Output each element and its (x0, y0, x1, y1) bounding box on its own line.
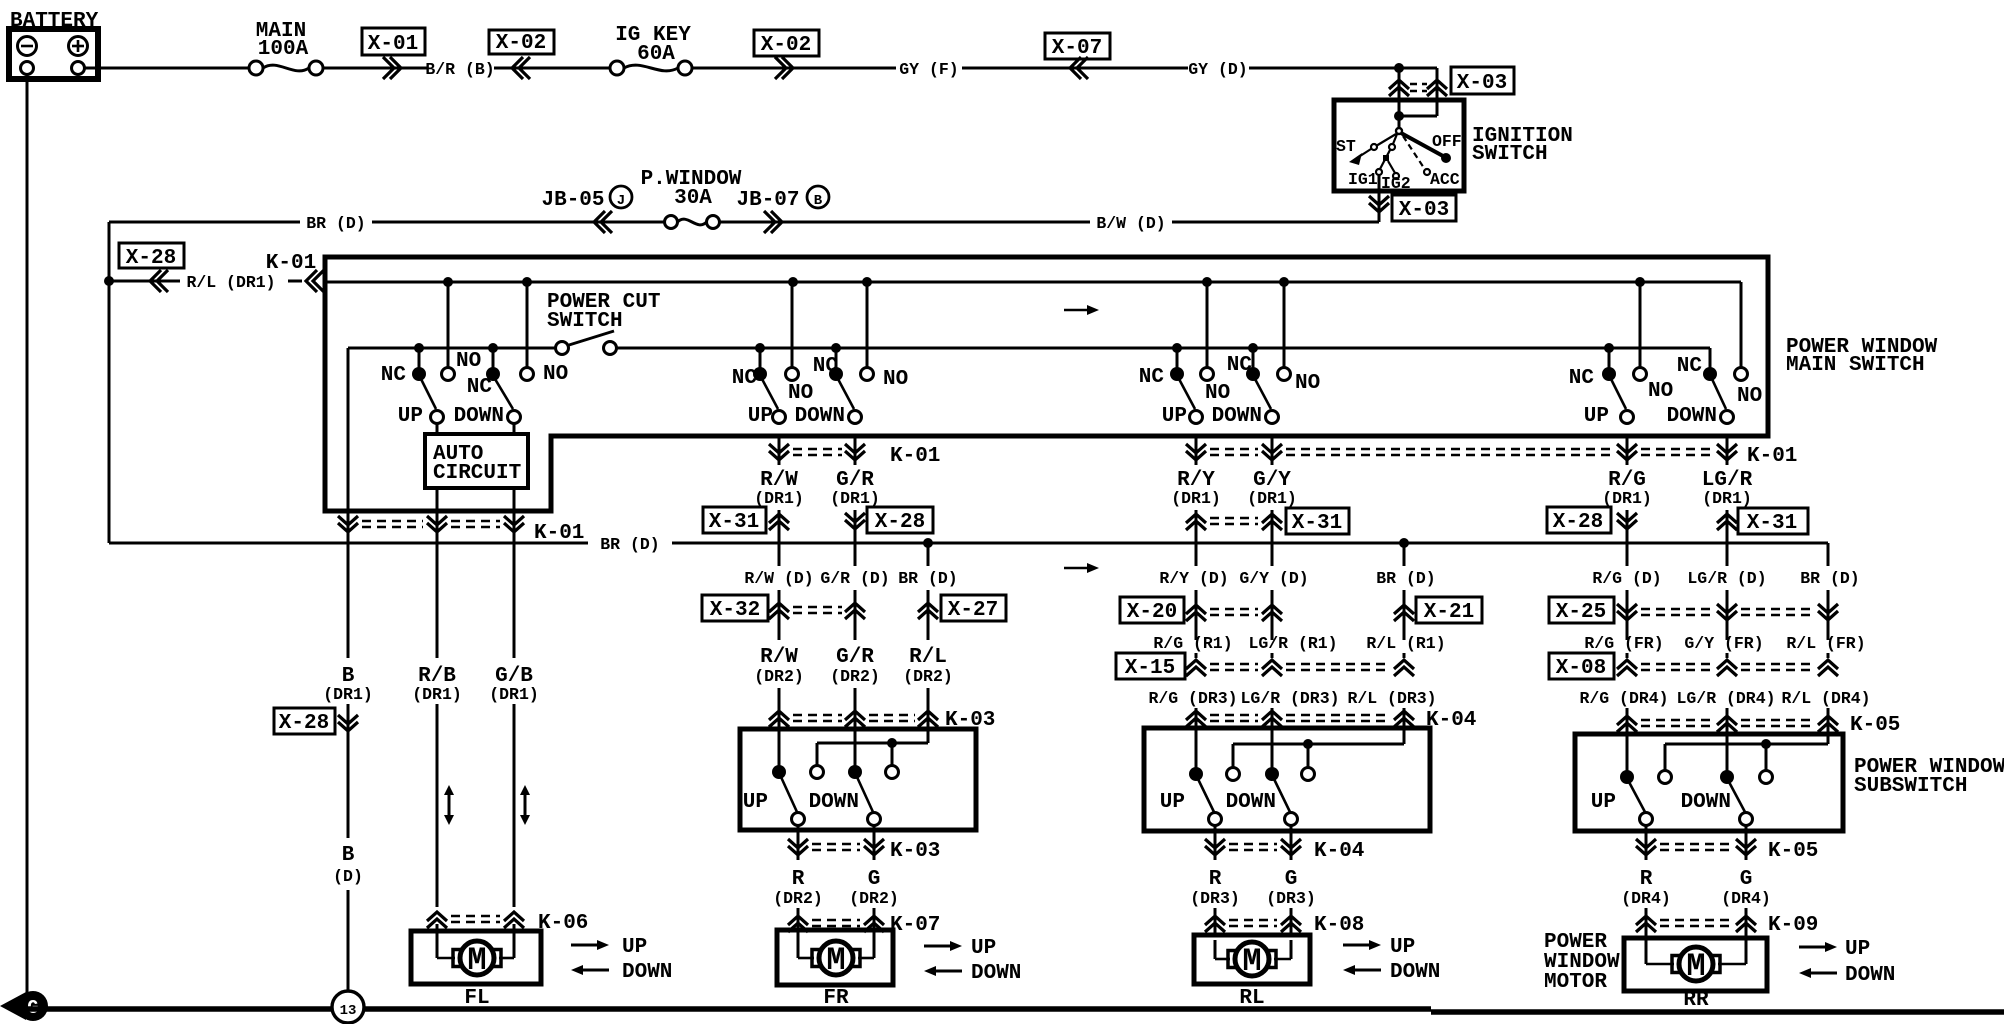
label FL UP (398, 405, 423, 428)
connector X-21 (1394, 597, 1482, 624)
svg-text:NC: NC (1139, 366, 1165, 389)
svg-text:K-06: K-06 (538, 912, 588, 935)
switch RL DOWN NO contact (1278, 282, 1291, 381)
svg-text:R/L (DR1): R/L (DR1) (186, 273, 275, 292)
wire label R/Y (D) (1159, 569, 1228, 640)
svg-text:NO: NO (883, 368, 908, 391)
connector K-01 FL (338, 511, 584, 545)
wire BR (D) feed corner (109, 214, 664, 233)
label FL NC2 (467, 376, 493, 399)
svg-text:G/Y (D): G/Y (D) (1239, 569, 1308, 588)
svg-text:IG1: IG1 (1348, 170, 1378, 189)
node R/L tap (104, 276, 114, 286)
wire G/B run (513, 704, 516, 907)
connector X-02 right (754, 30, 819, 79)
svg-text:NC: NC (467, 376, 493, 399)
wire label LG/R (R1) (1248, 634, 1337, 658)
wire label BR (D) drop RL (1376, 543, 1435, 640)
svg-text:CIRCUIT: CIRCUIT (433, 462, 521, 485)
switch RL UP NC contact (1170, 348, 1184, 381)
svg-text:B/R (B): B/R (B) (425, 60, 494, 79)
node ignition feed junction (1394, 63, 1437, 73)
svg-text:UP: UP (1591, 791, 1616, 814)
svg-text:NO: NO (543, 363, 568, 386)
switch RR DOWN NC contact (1703, 367, 1717, 381)
svg-text:(DR2): (DR2) (754, 667, 804, 686)
wire label R/L (DR2) (903, 646, 953, 729)
svg-text:DOWN: DOWN (1845, 964, 1895, 987)
svg-text:DOWN: DOWN (1681, 791, 1731, 814)
svg-text:NC: NC (813, 355, 839, 378)
svg-text:R/W (D): R/W (D) (744, 569, 813, 588)
switch FR DOWN NO contact (861, 282, 874, 381)
svg-text:R/L (R1): R/L (R1) (1366, 634, 1445, 653)
switch FR UP NO contact (786, 282, 799, 381)
wire label G/Y (D) (1239, 569, 1308, 640)
wire label B (DR1) (323, 533, 373, 704)
legend RL up down (1343, 936, 1440, 984)
wire fuse IG KEY to X-02 (692, 67, 802, 70)
label FR UP (748, 405, 773, 428)
svg-text:BR (D): BR (D) (1376, 569, 1435, 588)
connector X-25 (1549, 597, 1838, 624)
svg-text:X-03: X-03 (1399, 199, 1449, 222)
ground G (0, 991, 48, 1021)
svg-text:G/R (D): G/R (D) (820, 569, 889, 588)
wire label R/L (DR1) (186, 273, 302, 292)
wire label R/G (DR3) (1148, 689, 1237, 729)
label RR UP (1584, 405, 1609, 428)
connector K-09 (1636, 908, 1818, 941)
svg-text:ACC: ACC (1430, 170, 1460, 189)
svg-text:(DR3): (DR3) (1266, 889, 1316, 908)
svg-text:LG/R (DR3): LG/R (DR3) (1240, 689, 1339, 708)
svg-text:(DR1): (DR1) (1171, 489, 1221, 508)
wire power cut bus left (348, 347, 556, 350)
node R/L bus tap x=448 (443, 277, 453, 287)
auto circuit box (425, 423, 528, 511)
connector X-31 RL (1186, 508, 1349, 566)
svg-text:X-01: X-01 (368, 33, 418, 56)
node R/L bus tap x=527 (522, 277, 532, 287)
label FR NO2 (883, 368, 908, 391)
wire label G/R (DR2) (830, 646, 880, 729)
svg-text:UP: UP (743, 791, 768, 814)
wire power cut bus end drop (1709, 348, 1712, 368)
svg-text:DOWN: DOWN (795, 405, 845, 428)
svg-text:K-05: K-05 (1768, 840, 1818, 863)
svg-text:R/W: R/W (760, 646, 798, 669)
switch FR UP NC contact (753, 348, 767, 381)
wire battery positive to fuse MAIN (85, 67, 249, 70)
svg-text:BR (D): BR (D) (600, 535, 659, 554)
svg-text:GY (D): GY (D) (1188, 60, 1247, 79)
node BR tap FR (923, 538, 933, 548)
svg-text:NC: NC (1227, 354, 1253, 377)
wire label GY (D) (1087, 60, 1399, 79)
fuse P.WINDOW 30A (641, 168, 742, 229)
svg-text:X-31: X-31 (1292, 512, 1342, 535)
svg-text:(DR1): (DR1) (830, 489, 880, 508)
label FL NO1 (456, 350, 481, 373)
wire label R (DR2) (773, 868, 823, 908)
wire label G/Y (DR1) (1247, 469, 1297, 508)
switch RL UP NO contact (1201, 282, 1214, 381)
svg-text:(DR1): (DR1) (1702, 489, 1752, 508)
svg-text:X-08: X-08 (1556, 657, 1606, 680)
svg-text:(DR1): (DR1) (1247, 489, 1297, 508)
svg-text:R/G (D): R/G (D) (1592, 569, 1661, 588)
wire label LG/R (DR4) (1676, 689, 1775, 734)
wire B (DR1) inside box (347, 348, 350, 511)
ignition switch U1 (1334, 100, 1573, 193)
svg-text:(DR2): (DR2) (830, 667, 880, 686)
svg-text:BR (D): BR (D) (1800, 569, 1859, 588)
svg-text:R/Y (D): R/Y (D) (1159, 569, 1228, 588)
arrow right upper (1064, 305, 1099, 315)
svg-text:G: G (868, 868, 881, 891)
svg-text:MOTOR: MOTOR (1544, 971, 1607, 994)
node R/L bus tap x=1207 (1202, 277, 1212, 287)
svg-text:R/L (DR4): R/L (DR4) (1781, 689, 1870, 708)
svg-text:IG2: IG2 (1381, 174, 1411, 193)
svg-text:(D): (D) (333, 867, 363, 886)
arrow R/B direction (444, 785, 454, 825)
wire label R/W (DR2) (754, 646, 804, 729)
connector X-28 FL (274, 704, 358, 740)
svg-text:LG/R (DR4): LG/R (DR4) (1676, 689, 1775, 708)
node R/L bus tap x=867 (862, 277, 872, 287)
power window subswitch RR (1575, 726, 2004, 831)
svg-text:R/G (DR3): R/G (DR3) (1148, 689, 1237, 708)
svg-text:R: R (792, 868, 805, 891)
svg-text:X-31: X-31 (1747, 512, 1797, 535)
svg-text:K-01: K-01 (890, 445, 940, 468)
label FL DOWN (454, 405, 504, 428)
switch FL UP NC contact (412, 348, 426, 381)
switch RL DOWN blade (1255, 379, 1279, 424)
svg-text:SUBSWITCH: SUBSWITCH (1854, 775, 1967, 798)
power window subswitch FR (740, 721, 976, 830)
fuse IG KEY 60A (610, 24, 692, 75)
svg-text:BR (D): BR (D) (898, 569, 957, 588)
svg-text:R: R (1640, 868, 1653, 891)
connector X-02 left (489, 30, 554, 79)
label FR (823, 987, 849, 1010)
connector JB-05 (J) (541, 186, 632, 233)
connector X-31 RR (1717, 508, 1808, 535)
svg-text:R/L (DR3): R/L (DR3) (1347, 689, 1436, 708)
wire label B (D) (333, 740, 363, 991)
label RL NO2 (1295, 372, 1320, 395)
svg-text:K-01: K-01 (1747, 445, 1797, 468)
svg-text:UP: UP (971, 937, 996, 960)
connector X-28 left (109, 243, 184, 292)
wire label G/Y (FR) (1684, 634, 1763, 658)
connector K-01 left (266, 252, 324, 292)
connector X-28 FR (845, 507, 933, 566)
svg-text:NO: NO (1648, 380, 1673, 403)
svg-text:DOWN: DOWN (971, 962, 1021, 985)
switch RR UP NC contact (1602, 348, 1616, 381)
svg-text:60A: 60A (637, 43, 675, 66)
svg-text:(DR4): (DR4) (1721, 889, 1771, 908)
switch FR DOWN NC contact (829, 348, 843, 381)
wire label G/R (DR1) (830, 469, 880, 508)
svg-text:X-15: X-15 (1125, 657, 1175, 680)
wire label R/G (FR) (1584, 634, 1663, 658)
svg-text:(DR1): (DR1) (412, 685, 462, 704)
fuse MAIN 100A (249, 20, 323, 75)
node power cut tap x=760 (755, 343, 765, 353)
svg-text:X-28: X-28 (875, 511, 925, 534)
svg-text:NC: NC (381, 364, 407, 387)
svg-text:K-04: K-04 (1314, 840, 1364, 863)
wire label LG/R (DR1) (1702, 469, 1753, 508)
connector K-01 RL RR (1186, 436, 1797, 468)
svg-text:30A: 30A (674, 187, 712, 210)
svg-text:NO: NO (788, 382, 813, 405)
svg-text:OFF: OFF (1432, 132, 1462, 151)
svg-text:UP: UP (1390, 936, 1415, 959)
connector X-07 (1045, 33, 1110, 79)
svg-text:R/L: R/L (909, 646, 947, 669)
switch RR DOWN blade (1712, 379, 1734, 424)
svg-text:X-07: X-07 (1052, 37, 1102, 60)
svg-text:DOWN: DOWN (454, 405, 504, 428)
wire R/B run (436, 704, 439, 907)
wire label R/W (D) (744, 569, 813, 640)
wire label LG/R (D) (1687, 510, 1766, 640)
wire label R/W (DR1) (754, 469, 804, 508)
svg-text:DOWN: DOWN (1226, 791, 1276, 814)
svg-text:X-02: X-02 (496, 32, 546, 55)
switch RR UP NO contact (1634, 282, 1647, 381)
arrow right lower (1064, 563, 1099, 573)
svg-text:X-28: X-28 (279, 712, 329, 735)
connector K-03 upper (769, 709, 995, 732)
power window motor RR (1544, 931, 1767, 994)
connector X-03 top (1389, 67, 1514, 116)
connector X-01 (362, 28, 425, 79)
wire label G (DR4) (1721, 868, 1771, 908)
label RR (1683, 989, 1709, 1012)
connector K-05 lower (1636, 826, 1818, 863)
svg-text:UP: UP (1584, 405, 1609, 428)
switch FR UP blade (762, 379, 786, 424)
label FL NC1 (381, 364, 407, 387)
svg-text:X-28: X-28 (1553, 511, 1603, 534)
svg-text:M: M (467, 942, 486, 979)
wire label R/G (D) (1592, 510, 1661, 640)
battery (9, 10, 99, 79)
wire label R/L (DR4) (1781, 689, 1870, 734)
wire BR (D) left vertical (108, 222, 111, 543)
label RR NC1 (1569, 367, 1595, 390)
node power cut tap x=419 (414, 343, 424, 353)
label RL UP (1162, 405, 1187, 428)
connector K-03 lower (788, 826, 940, 863)
svg-text:G: G (1740, 868, 1753, 891)
wire label G/B (DR1) (489, 533, 539, 704)
svg-text:R: R (1209, 868, 1222, 891)
wire R/L bus (325, 281, 1741, 284)
svg-text:G: G (1285, 868, 1298, 891)
svg-text:LG/R (D): LG/R (D) (1687, 569, 1766, 588)
connector K-01 FR (769, 436, 940, 468)
connector X-27 (918, 595, 1006, 622)
svg-text:K-04: K-04 (1426, 709, 1476, 732)
svg-text:R/G (R1): R/G (R1) (1153, 634, 1232, 653)
svg-text:100A: 100A (258, 38, 309, 61)
wire label BR (D) drop FR (898, 543, 957, 640)
switch FL UP blade (421, 379, 444, 424)
svg-text:MAIN SWITCH: MAIN SWITCH (1786, 354, 1925, 377)
switch FR DOWN blade (838, 379, 862, 424)
wire X-02 to fuse IG KEY (530, 67, 610, 70)
power window motor RL (1194, 935, 1310, 984)
svg-text:13: 13 (340, 1003, 357, 1019)
svg-text:UP: UP (1162, 405, 1187, 428)
svg-text:(DR2): (DR2) (773, 889, 823, 908)
connector K-06 (427, 912, 588, 936)
svg-text:(DR2): (DR2) (903, 667, 953, 686)
wire label R/L (R1) (1366, 634, 1445, 658)
switch FL DOWN NO contact (521, 282, 534, 381)
node BR tap RL (1399, 538, 1409, 548)
svg-text:ST: ST (1336, 137, 1356, 156)
svg-text:NO: NO (1295, 372, 1320, 395)
power window motor FR (777, 930, 893, 985)
node power cut tap x=1253 (1248, 343, 1258, 353)
svg-text:M: M (826, 942, 845, 979)
switch FL UP NO contact (442, 282, 455, 381)
label RR DOWN (1667, 405, 1717, 428)
switch RR DOWN NO contact (1735, 368, 1748, 381)
wire label R/G (DR1) (1602, 469, 1652, 508)
connector K-08 (1205, 908, 1364, 937)
label RL (1239, 987, 1264, 1010)
node R/L bus tap x=1640 (1635, 277, 1645, 287)
wire label R (DR4) (1621, 868, 1671, 908)
wire label B/W (D) (789, 214, 1379, 233)
svg-text:X-03: X-03 (1457, 72, 1507, 95)
svg-text:B: B (342, 844, 355, 867)
svg-text:UP: UP (748, 405, 773, 428)
svg-text:NO: NO (1205, 382, 1230, 405)
switch FL DOWN NC contact (486, 348, 500, 381)
svg-text:K-07: K-07 (890, 914, 940, 937)
wire label B/R (B) (425, 60, 530, 79)
svg-text:(DR3): (DR3) (1190, 889, 1240, 908)
label FR NC1 (732, 367, 758, 390)
svg-text:B: B (814, 193, 823, 209)
connector X-08 (1549, 653, 1838, 680)
connector K-04 upper (1186, 709, 1476, 732)
connector X-03 bottom (1369, 175, 1456, 222)
label RR NC2 (1677, 355, 1703, 378)
svg-text:(DR1): (DR1) (754, 489, 804, 508)
svg-text:X-25: X-25 (1556, 601, 1606, 624)
power window subswitch RL (1144, 720, 1430, 831)
switch RL UP blade (1179, 379, 1203, 424)
svg-text:BR (D): BR (D) (306, 214, 365, 233)
node power cut tap x=836 (831, 343, 841, 353)
svg-text:(DR1): (DR1) (323, 685, 373, 704)
svg-text:NO: NO (1737, 385, 1762, 408)
wire label R/B (DR1) (412, 533, 462, 704)
wire BR (D) bus (109, 535, 1828, 554)
wire power cut bus right (616, 347, 1710, 350)
connector JB-07 (B) (719, 186, 829, 233)
wire label G/R (D) (820, 569, 889, 640)
label FL NO2 (543, 363, 568, 386)
svg-text:NC: NC (732, 367, 758, 390)
svg-text:X-32: X-32 (710, 599, 760, 622)
svg-text:R/G (FR): R/G (FR) (1584, 634, 1663, 653)
power window motor FL (411, 931, 541, 984)
label RR NO2 (1737, 385, 1762, 408)
connector K-04 lower (1205, 826, 1364, 863)
svg-text:J: J (617, 193, 625, 209)
wire BR (D) bus end drop (1827, 543, 1830, 566)
connector X-20 (1120, 597, 1282, 624)
connector X-31 FR (703, 507, 789, 566)
connector X-15 (1116, 653, 1414, 680)
svg-text:R/L (FR): R/L (FR) (1786, 634, 1865, 653)
svg-text:K-08: K-08 (1314, 914, 1364, 937)
svg-text:(DR1): (DR1) (1602, 489, 1652, 508)
connector X-28 RR (1547, 507, 1637, 534)
svg-text:UP: UP (398, 405, 423, 428)
label RL NC1 (1139, 366, 1165, 389)
wire label LG/R (DR3) (1240, 689, 1339, 729)
svg-text:X-28: X-28 (126, 247, 176, 270)
wire label G (DR2) (849, 868, 899, 908)
svg-text:K-03: K-03 (890, 840, 940, 863)
wire label G (DR3) (1266, 868, 1316, 908)
svg-text:UP: UP (1845, 938, 1870, 961)
wire label BR (D) drop RR (1800, 569, 1859, 640)
connector X-32 (702, 595, 865, 622)
label RL NC2 (1227, 354, 1253, 377)
label RL NO1 (1205, 382, 1230, 405)
wire label R/G (R1) (1153, 634, 1232, 658)
label RL DOWN (1212, 405, 1262, 428)
svg-text:JB-05: JB-05 (541, 189, 604, 212)
switch RR UP blade (1611, 379, 1634, 424)
svg-text:X-21: X-21 (1424, 601, 1474, 624)
label FR NC2 (813, 355, 839, 378)
ground node 13 (332, 991, 364, 1023)
svg-text:DOWN: DOWN (622, 961, 672, 984)
power window main switch box (325, 257, 1938, 511)
svg-text:X-02: X-02 (761, 34, 811, 57)
svg-text:BATTERY: BATTERY (10, 10, 99, 33)
svg-text:X-31: X-31 (709, 511, 759, 534)
wire label R/L (FR) (1786, 634, 1865, 658)
svg-text:K-09: K-09 (1768, 914, 1818, 937)
label FR NO1 (788, 382, 813, 405)
label FL (464, 987, 489, 1010)
label RR NO1 (1648, 380, 1673, 403)
svg-text:JB-07: JB-07 (736, 189, 799, 212)
svg-text:UP: UP (622, 936, 647, 959)
svg-text:DOWN: DOWN (809, 791, 859, 814)
label FR DOWN (795, 405, 845, 428)
svg-text:LG/R (R1): LG/R (R1) (1248, 634, 1337, 653)
connector K-05 upper (1617, 714, 1900, 737)
